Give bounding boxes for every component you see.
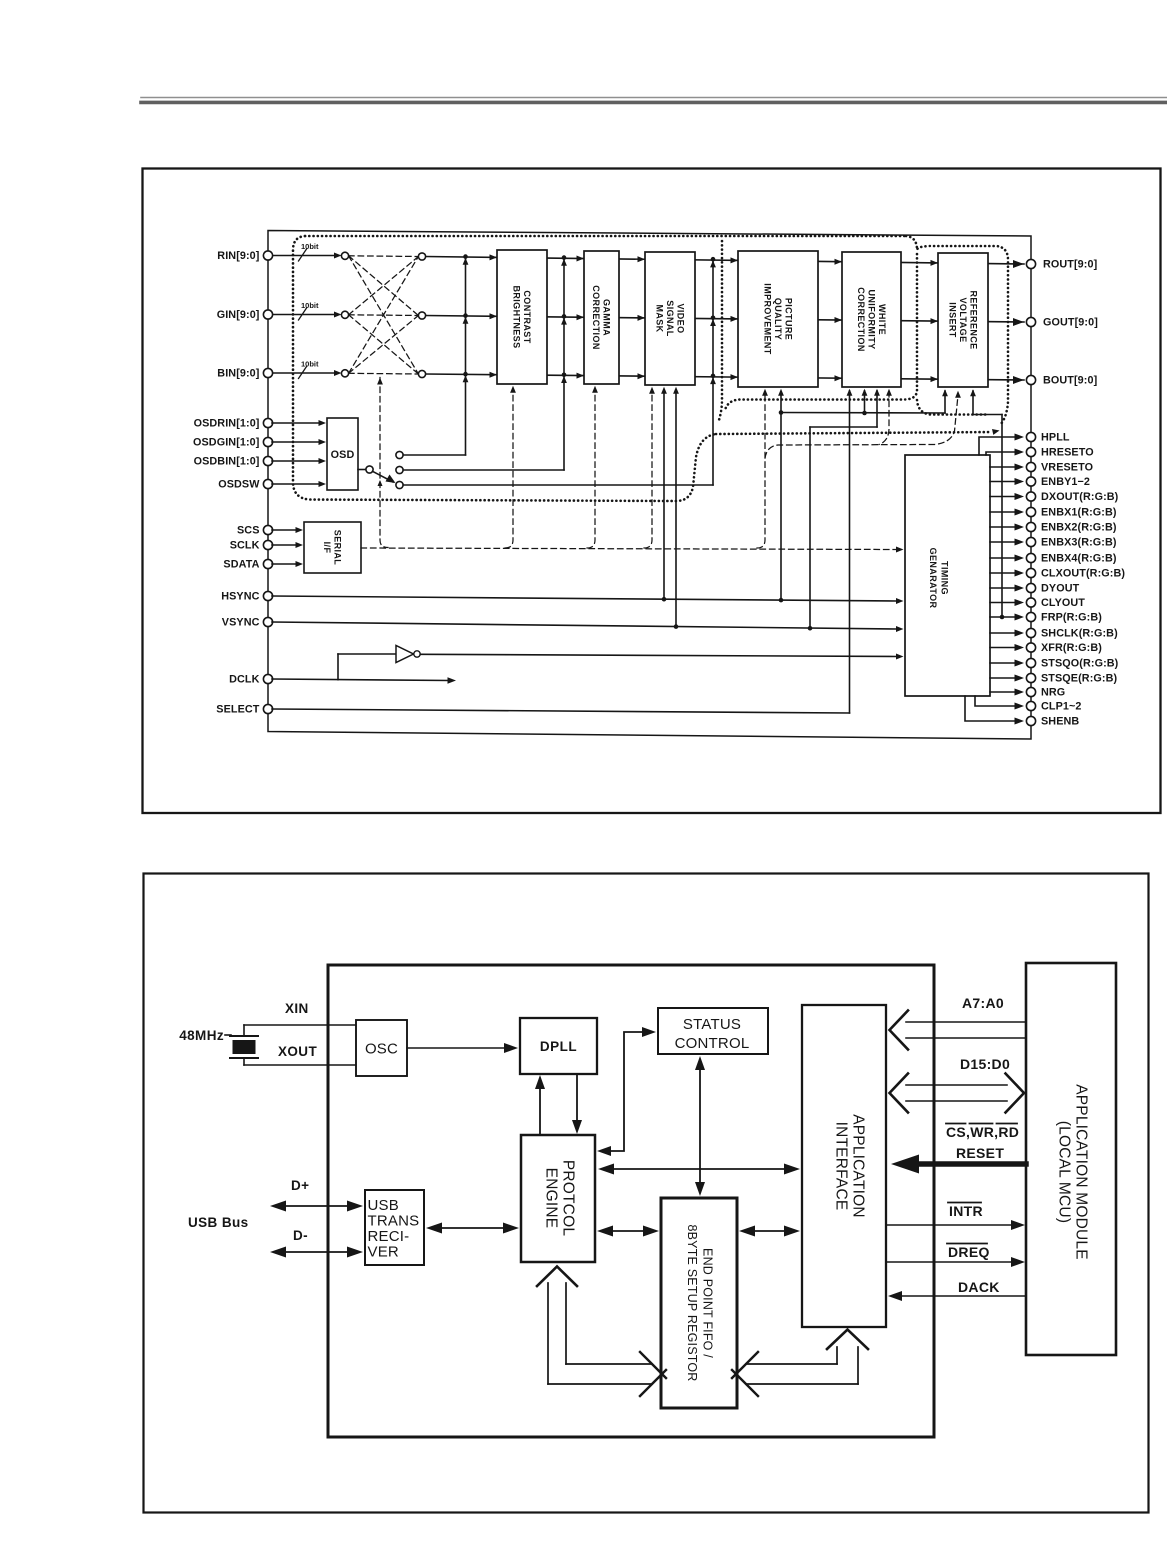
svg-text:CONTRAST: CONTRAST — [522, 290, 532, 343]
wire status control / end point fifo — [695, 1056, 705, 1196]
svg-text:SHENB: SHENB — [1041, 716, 1079, 728]
output pin ENBY1−2 — [1015, 476, 1091, 488]
input pin OSDSW — [218, 479, 272, 491]
svg-text:VSYNC: VSYNC — [222, 617, 260, 629]
svg-text:D+: D+ — [291, 1178, 309, 1193]
crossbar matrix dashed wires — [349, 256, 419, 374]
SERIAL I/F block — [304, 522, 361, 573]
output pin BOUT[9:0] — [1026, 375, 1097, 387]
signal CS,WR,RD labels with overbars — [946, 1124, 1019, 1162]
wire ENBX3(R:G:B) from timing right edge — [990, 541, 1014, 543]
svg-text:10bit: 10bit — [301, 301, 319, 310]
PICTURE QUALITY IMPROVEMENT block — [738, 251, 818, 387]
wire RESET / control (thick) — [891, 1155, 1026, 1174]
svg-text:DREQ: DREQ — [948, 1244, 990, 1260]
output pin SHENB — [1015, 716, 1080, 728]
dashed control branch x=765 — [757, 389, 768, 548]
END POINT FIFO / 8BYTE SETUP REGISTOR block — [661, 1198, 737, 1408]
svg-text:8BYTE SETUP REGISTOR: 8BYTE SETUP REGISTOR — [685, 1224, 699, 1381]
wires switch outputs to mix columns — [403, 455, 713, 485]
svg-text:SIGNAL: SIGNAL — [665, 300, 675, 337]
wire GIN channel — [268, 312, 1024, 323]
svg-text:DPLL: DPLL — [540, 1039, 577, 1054]
svg-text:OSDSW: OSDSW — [218, 479, 260, 491]
svg-text:HPLL: HPLL — [1041, 432, 1070, 444]
output pin NRG — [1015, 687, 1066, 699]
svg-text:CONTROL: CONTROL — [675, 1035, 750, 1052]
input pin OSDGIN[1:0] — [193, 437, 273, 449]
svg-text:HSYNC: HSYNC — [221, 591, 259, 603]
dotted boundary top line — [305, 235, 906, 238]
dotted boundary region B (picture quality / white uniformity) — [719, 241, 917, 420]
svg-text:CORRECTION: CORRECTION — [591, 285, 601, 350]
wire DXOUT(R:G:B) from timing right edge — [990, 496, 1014, 498]
crossbar input nodes — [341, 252, 348, 377]
dotted boundary region A (crossbar to video mask) — [293, 236, 716, 501]
APPLICATION MODULE (LOCAL MCU) block — [1026, 963, 1116, 1355]
USB controller main block — [328, 965, 934, 1437]
output pin ENBX4(R:G:B) — [1015, 553, 1117, 565]
wire DCLK — [272, 654, 456, 684]
TIMING GENARATOR block — [905, 455, 990, 696]
input pin SCLK — [230, 540, 273, 552]
wire RIN channel — [268, 253, 1024, 265]
svg-text:DACK: DACK — [958, 1279, 1000, 1295]
USB Bus label — [188, 1215, 249, 1230]
wire FRP feedback to REFERENCE VOLTAGE (P2) — [970, 389, 1004, 619]
svg-text:RIN[9:0]: RIN[9:0] — [217, 250, 259, 262]
svg-text:SELECT: SELECT — [216, 704, 259, 716]
svg-text:MASK: MASK — [654, 304, 664, 332]
dotted path to HPLL — [716, 429, 1000, 435]
hsync tap to PICTURE QUALITY — [778, 389, 784, 600]
wire HRESETO from timing top — [986, 452, 1014, 455]
svg-text:ENBY1−2: ENBY1−2 — [1041, 476, 1090, 488]
svg-text:USB: USB — [368, 1197, 399, 1214]
input pin OSDRIN[1:0] — [194, 418, 273, 430]
wire OSC to DPLL — [407, 1043, 518, 1053]
svg-text:TRANS: TRANS — [368, 1213, 420, 1230]
svg-text:A7:A0: A7:A0 — [962, 995, 1004, 1011]
output pin ENBX3(R:G:B) — [1015, 537, 1117, 549]
dashed control branch to white-uniformity / reference — [765, 389, 961, 458]
tap up into WHITE UNIFORMITY at 864 — [862, 389, 868, 413]
svg-text:VOLTAGE: VOLTAGE — [958, 298, 968, 343]
svg-text:OSD: OSD — [331, 449, 355, 461]
svg-text:PICTURE: PICTURE — [783, 298, 793, 340]
input pin DCLK — [229, 674, 272, 686]
dashed control branch x=595 — [587, 386, 598, 548]
wire VSYNC — [272, 622, 904, 632]
dashed control branch x=652 — [644, 387, 655, 548]
svg-text:ROUT[9:0]: ROUT[9:0] — [1043, 259, 1097, 271]
VIDEO SIGNAL MASK block — [645, 252, 695, 385]
wire XIN — [244, 1001, 356, 1036]
output pin CLYOUT — [1015, 597, 1086, 609]
wire SELECT — [272, 389, 852, 713]
svg-text:REFERENCE: REFERENCE — [968, 290, 978, 349]
header rule — [141, 98, 1167, 103]
wire inverted DCLK to timing generator — [420, 654, 903, 660]
STATUS CONTROL block — [658, 1008, 768, 1054]
USB TRANS RECIVER block — [365, 1190, 424, 1265]
output pin GOUT[9:0] — [1026, 317, 1097, 329]
output pin ENBX1(R:G:B) — [1015, 507, 1117, 519]
48MHz crystal — [179, 1028, 258, 1058]
wire end point fifo / application interface — [739, 1226, 800, 1237]
svg-text:INTERFACE: INTERFACE — [832, 1122, 849, 1211]
output pin STSQE(R:G:B) — [1015, 673, 1118, 685]
svg-text:VER: VER — [368, 1244, 399, 1261]
output pin STSQO(R:G:B) — [1015, 658, 1119, 670]
OSD mix injection column 3 — [710, 257, 716, 485]
output pin SHCLK(R:G:B) — [1015, 628, 1119, 640]
wire BIN channel — [268, 370, 1024, 380]
svg-text:CLXOUT(R:G:B): CLXOUT(R:G:B) — [1041, 568, 1125, 580]
dashed control wire to crossbar/switch — [377, 378, 388, 548]
svg-text:STATUS: STATUS — [683, 1016, 741, 1033]
REFERENCE VOLTAGE INSERT block — [938, 253, 988, 387]
wires serial inputs — [272, 527, 303, 567]
wire DACK — [888, 1279, 1026, 1301]
PROTCOL ENGINE block — [521, 1135, 595, 1262]
OSD output switch — [358, 451, 403, 488]
svg-text:USB Bus: USB Bus — [188, 1215, 249, 1230]
vsync tap to VIDEO SIGNAL MASK — [673, 387, 679, 627]
svg-text:WHITE: WHITE — [877, 304, 887, 335]
OSD block — [327, 418, 358, 490]
svg-text:GENARATOR: GENARATOR — [928, 548, 938, 609]
svg-text:BIN[9:0]: BIN[9:0] — [217, 368, 259, 380]
svg-text:CORRECTION: CORRECTION — [856, 287, 866, 352]
svg-text:SERIAL: SERIAL — [333, 530, 343, 566]
APPLICATION INTERFACE block — [802, 1005, 886, 1327]
svg-text:CS,WR,RD: CS,WR,RD — [946, 1124, 1019, 1140]
wire protocol / application interface — [598, 1164, 800, 1175]
svg-text:ENBX4(R:G:B): ENBX4(R:G:B) — [1041, 553, 1117, 565]
svg-text:OSC: OSC — [365, 1041, 398, 1058]
svg-text:NRG: NRG — [1041, 687, 1065, 699]
svg-text:SCLK: SCLK — [230, 540, 260, 552]
input pin RIN[9:0] — [217, 250, 272, 262]
svg-text:D15:D0: D15:D0 — [960, 1056, 1010, 1072]
wire INTR — [886, 1203, 1025, 1231]
dashed control branch x=513 — [505, 386, 516, 548]
svg-text:DYOUT: DYOUT — [1041, 583, 1080, 595]
svg-text:RECI-: RECI- — [368, 1228, 410, 1245]
output pin VRESETO — [1015, 462, 1094, 474]
input pin SELECT — [216, 704, 272, 716]
bus-width slash 10bit (G) — [299, 301, 320, 320]
svg-text:48MHz: 48MHz — [179, 1028, 224, 1043]
svg-text:CLYOUT: CLYOUT — [1041, 597, 1085, 609]
svg-text:END POINT FIFO /: END POINT FIFO / — [701, 1248, 715, 1358]
svg-text:CLP1~2: CLP1~2 — [1041, 701, 1082, 713]
bus-width slash 10bit (B) — [299, 360, 320, 379]
crossbar output nodes — [418, 253, 425, 378]
OSD mix injection column 2 — [561, 255, 567, 470]
svg-text:FRP(R:G:B): FRP(R:G:B) — [1041, 612, 1102, 624]
wire SHENB from timing bottom — [965, 696, 1014, 721]
wire NRG from timing right edge — [990, 691, 1014, 693]
output pin HPLL — [1015, 432, 1070, 444]
GAMMA CORRECTION block — [584, 251, 619, 384]
hsync tap to VIDEO SIGNAL MASK — [661, 387, 667, 599]
svg-text:GOUT[9:0]: GOUT[9:0] — [1043, 317, 1098, 329]
wire ENBY1−2 from timing right edge — [990, 481, 1014, 483]
input pin GIN[9:0] — [217, 309, 273, 321]
wire CLYOUT from timing right edge — [990, 602, 1014, 604]
inverter on DCLK — [338, 646, 420, 663]
svg-text:VIDEO: VIDEO — [675, 303, 685, 333]
OSD mix injection column 1 — [463, 254, 469, 455]
svg-text:SDATA: SDATA — [223, 559, 259, 571]
wire DPLL to protocol (down) — [572, 1074, 582, 1134]
output pin HRESETO — [1015, 447, 1094, 459]
svg-text:STSQO(R:G:B): STSQO(R:G:B) — [1041, 658, 1119, 670]
svg-text:OSDBIN[1:0]: OSDBIN[1:0] — [194, 456, 260, 468]
svg-text:UNIFORMITY: UNIFORMITY — [866, 290, 876, 350]
vsync tap up to WHITE UNIFORMITY — [810, 389, 880, 628]
input pin SCS — [237, 525, 273, 537]
hollow bus endpoint to protocol — [537, 1267, 666, 1397]
svg-text:QUALITY: QUALITY — [773, 298, 783, 340]
svg-text:10bit: 10bit — [301, 360, 319, 369]
svg-text:DXOUT(R:G:B): DXOUT(R:G:B) — [1041, 491, 1119, 503]
svg-text:BRIGHTNESS: BRIGHTNESS — [512, 285, 522, 348]
svg-text:GIN[9:0]: GIN[9:0] — [217, 309, 260, 321]
wire VRESETO from timing right edge — [990, 466, 1014, 468]
wire protocol / status control — [597, 1027, 656, 1156]
svg-text:VRESETO: VRESETO — [1041, 462, 1093, 474]
wire FRP(R:G:B) from timing right edge — [990, 616, 1014, 618]
wire ENBX4(R:G:B) from timing right edge — [990, 557, 1014, 559]
diagram 1 outer frame — [143, 169, 1161, 814]
input pin VSYNC — [222, 617, 273, 629]
input pin SDATA — [223, 559, 272, 571]
svg-text:APPLICATION MODULE: APPLICATION MODULE — [1072, 1084, 1089, 1260]
wire XFR(R:G:B) from timing right edge — [990, 647, 1014, 649]
output pin DXOUT(R:G:B) — [1015, 491, 1119, 503]
svg-text:SHCLK(R:G:B): SHCLK(R:G:B) — [1041, 628, 1118, 640]
diagram 2 outer frame — [144, 874, 1149, 1513]
svg-text:DCLK: DCLK — [229, 674, 259, 686]
svg-text:RESET: RESET — [956, 1145, 1004, 1161]
svg-text:IMPROVEMENT: IMPROVEMENT — [762, 283, 772, 355]
output pin XFR(R:G:B) — [1015, 642, 1103, 654]
diagram 1 inner boundary box — [268, 231, 1031, 740]
svg-text:INSERT: INSERT — [947, 302, 957, 338]
wire CLXOUT(R:G:B) from timing right edge — [990, 572, 1014, 574]
wire ENBX1(R:G:B) from timing right edge — [990, 511, 1014, 513]
svg-text:XOUT: XOUT — [278, 1044, 317, 1059]
output pin ROUT[9:0] — [1026, 259, 1097, 271]
svg-text:ENGINE: ENGINE — [542, 1168, 559, 1229]
svg-text:ENBX3(R:G:B): ENBX3(R:G:B) — [1041, 537, 1117, 549]
svg-text:OSDRIN[1:0]: OSDRIN[1:0] — [194, 418, 260, 430]
svg-text:TIMING: TIMING — [940, 561, 950, 595]
wire STSQO(R:G:B) from timing right edge — [990, 662, 1014, 664]
output pin CLXOUT(R:G:B) — [1015, 568, 1126, 580]
wires OSD inputs — [272, 420, 326, 487]
CONTRAST BRIGHTNESS block — [497, 250, 547, 384]
wire CLP1~2 from timing bottom — [975, 696, 1014, 706]
output pin CLP1~2 — [1015, 701, 1082, 713]
channel arrowheads into blocks — [490, 254, 939, 382]
OSC block — [356, 1020, 407, 1076]
svg-text:ENBX2(R:G:B): ENBX2(R:G:B) — [1041, 522, 1117, 534]
svg-text:SCS: SCS — [237, 525, 260, 537]
svg-text:INTR: INTR — [949, 1203, 983, 1219]
svg-text:HRESETO: HRESETO — [1041, 447, 1094, 459]
svg-text:XFR(R:G:B): XFR(R:G:B) — [1041, 642, 1102, 654]
wire protocol / end point fifo — [597, 1226, 659, 1237]
dotted boundary region C (reference voltage insert) — [906, 236, 1008, 424]
bus A7:A0 — [890, 995, 1027, 1050]
svg-text:ENBX1(R:G:B): ENBX1(R:G:B) — [1041, 507, 1117, 519]
input pin HSYNC — [221, 591, 272, 603]
svg-text:STSQE(R:G:B): STSQE(R:G:B) — [1041, 673, 1117, 685]
wire D- — [270, 1228, 363, 1258]
svg-text:D-: D- — [293, 1228, 308, 1243]
wire protocol to DPLL (up) — [535, 1075, 545, 1135]
svg-text:BOUT[9:0]: BOUT[9:0] — [1043, 375, 1097, 387]
output pin DYOUT — [1015, 583, 1080, 595]
wire SHCLK(R:G:B) from timing right edge — [990, 632, 1014, 634]
bus-width slash 10bit (R) — [299, 242, 320, 261]
output arrowheads ROUT GOUT BOUT — [1013, 260, 1024, 384]
dashed serial control bus — [361, 547, 904, 553]
svg-text:GAMMA: GAMMA — [602, 299, 612, 336]
svg-text:I/F: I/F — [322, 542, 332, 554]
DPLL block — [520, 1018, 597, 1074]
wire ENBX2(R:G:B) from timing right edge — [990, 526, 1014, 528]
output pin FRP(R:G:B) — [1015, 612, 1103, 624]
wire XOUT — [244, 1044, 356, 1065]
output pin ENBX2(R:G:B) — [1015, 522, 1117, 534]
wire HPLL from timing top — [979, 437, 1014, 455]
wire hsync distribution to REFERENCE VOLTAGE (y=413) — [779, 389, 948, 415]
input pin BIN[9:0] — [217, 368, 272, 380]
svg-text:OSDGIN[1:0]: OSDGIN[1:0] — [193, 437, 260, 449]
svg-text:APPLICATION: APPLICATION — [849, 1114, 866, 1218]
wire DYOUT from timing right edge — [990, 587, 1014, 589]
svg-text:PROTCOL: PROTCOL — [559, 1160, 576, 1237]
wire DREQ — [886, 1244, 1025, 1268]
svg-text:10bit: 10bit — [301, 242, 319, 251]
input pin OSDBIN[1:0] — [194, 456, 273, 468]
wire USB transceiver / protocol — [426, 1223, 519, 1234]
wire HSYNC — [272, 596, 904, 604]
svg-text:XIN: XIN — [285, 1001, 309, 1016]
wire STSQE(R:G:B) from timing right edge — [990, 677, 1014, 679]
svg-text:(LOCAL MCU): (LOCAL MCU) — [1055, 1121, 1072, 1223]
wire D+ — [270, 1178, 363, 1212]
WHITE UNIFORMITY CORRECTION block — [842, 252, 901, 387]
bus D15:D0 — [890, 1056, 1025, 1113]
hollow bus endpoint to application interface — [732, 1330, 868, 1397]
